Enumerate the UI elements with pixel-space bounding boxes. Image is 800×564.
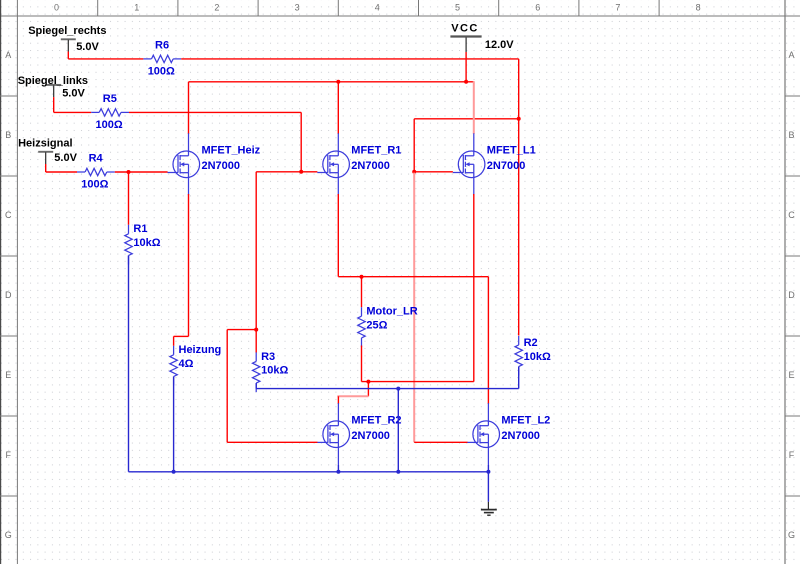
wire horizontal y=117.8 branch to MFET_L1 gate loop	[414, 118, 519, 120]
wire ground bus y=471.8	[129, 471, 489, 473]
junction VCC rail at VCC stem	[464, 80, 468, 84]
junction connector at ground bus	[396, 470, 400, 474]
junction VCC rail at MFET_R1 drain	[336, 80, 340, 84]
junction at (256.2,329.6)	[254, 328, 258, 332]
svg-text:6: 6	[535, 3, 540, 13]
wire MFET_L1 gate lead	[414, 171, 453, 173]
svg-text:3: 3	[295, 3, 300, 13]
svg-text:5.0V: 5.0V	[54, 152, 77, 164]
wire MFET_R2 drain drop	[337, 396, 339, 404]
junction Heizung at ground bus	[172, 470, 176, 474]
junction on x=518.7 at y=117.8	[517, 117, 521, 121]
wire Spiegel_links to R5 left pin	[54, 111, 91, 113]
wire MFET_R1 source down	[337, 194, 339, 277]
transistor MFET_L2 2N7000	[467, 403, 550, 465]
svg-text:4: 4	[375, 3, 380, 13]
svg-text:2N7000: 2N7000	[351, 160, 390, 172]
svg-text:1: 1	[134, 3, 139, 13]
wire vertical x=256.2 down to R3	[255, 172, 257, 353]
svg-text:8: 8	[696, 3, 701, 13]
svg-text:2N7000: 2N7000	[351, 430, 390, 442]
svg-text:MFET_L1: MFET_L1	[487, 145, 536, 157]
svg-text:R5: R5	[103, 93, 117, 105]
svg-text:4Ω: 4Ω	[179, 358, 194, 370]
wire blue connector x=398.3 down to ground bus	[397, 389, 399, 472]
svg-text:2N7000: 2N7000	[487, 160, 526, 172]
voltage source Spiegel_links 5.0V	[18, 75, 88, 112]
svg-text:Heizsignal: Heizsignal	[18, 137, 72, 149]
wire Motor_LR bottom down	[361, 346, 363, 382]
svg-text:R1: R1	[133, 223, 147, 235]
svg-text:100Ω: 100Ω	[96, 119, 123, 131]
resistor R6 100ohm	[143, 40, 181, 78]
wire MFET_L2 drain drop x=488.4	[487, 277, 489, 404]
svg-text:C: C	[788, 210, 795, 220]
resistor R1 10kohm	[125, 223, 161, 264]
svg-text:5: 5	[455, 3, 460, 13]
junction at (414.2,171.8)	[412, 170, 416, 174]
svg-text:MFET_R1: MFET_R1	[351, 145, 401, 157]
voltage source Spiegel_rechts 5.0V	[28, 25, 106, 59]
wire MFET_L2 gate lead	[414, 441, 467, 443]
transistor MFET_Heiz 2N7000	[168, 133, 261, 195]
svg-text:E: E	[5, 370, 11, 380]
junction MFET_L2 source / ground stem	[486, 470, 490, 474]
svg-text:R4: R4	[89, 153, 104, 165]
svg-text:R3: R3	[261, 351, 275, 363]
wire MFET_R2 source to ground bus	[337, 465, 339, 472]
wire Motor_LR top drop	[361, 277, 363, 308]
resistor Motor_LR 25ohm	[358, 306, 418, 347]
svg-text:B: B	[788, 130, 794, 140]
wire R1 bottom to ground bus	[128, 256, 130, 472]
svg-text:100Ω: 100Ω	[148, 65, 175, 77]
selected wire (pink) jog to MFET_R2 drain	[337, 395, 368, 397]
wire branch y=329.6 to x=227.2	[227, 329, 256, 331]
svg-text:2: 2	[214, 3, 219, 13]
svg-text:F: F	[5, 450, 11, 460]
wire horizontal y=276.7	[338, 276, 488, 278]
svg-text:MFET_L2: MFET_L2	[501, 415, 550, 427]
svg-text:7: 7	[615, 3, 620, 13]
transistor MFET_R1 2N7000	[317, 133, 401, 195]
wire R6 right pin to corner x=518.7	[181, 58, 519, 60]
svg-text:Spiegel_links: Spiegel_links	[18, 75, 88, 87]
wire vertical x=414.2 down to L1 gate node	[413, 119, 415, 172]
svg-text:5.0V: 5.0V	[76, 41, 99, 53]
svg-text:MFET_R2: MFET_R2	[351, 415, 401, 427]
resistor R4 100ohm	[77, 153, 115, 191]
svg-text:2N7000: 2N7000	[202, 160, 241, 172]
svg-text:Heizung: Heizung	[179, 344, 222, 356]
wire gate row y=171.8 from x=256.2 to MFET_R1 gate	[256, 171, 317, 173]
svg-text:E: E	[788, 370, 794, 380]
power symbol VCC 12.0V	[450, 23, 514, 52]
ground	[481, 502, 497, 515]
junction at (398.3,388.6)	[396, 387, 400, 391]
svg-text:C: C	[5, 210, 12, 220]
svg-text:2N7000: 2N7000	[501, 430, 540, 442]
transistor MFET_R2 2N7000	[317, 403, 401, 465]
svg-text:D: D	[5, 290, 12, 300]
wire vertical x=368.4 down	[367, 382, 369, 397]
svg-text:D: D	[788, 290, 795, 300]
resistor R3 10kohm	[253, 351, 289, 392]
wire vertical x=518.7 down to R2 top	[518, 59, 520, 336]
wire MFET_R2 gate lead row	[227, 441, 317, 443]
wire MFET_L2 source to ground stem	[487, 465, 489, 502]
wire horizontal y=381.6	[362, 381, 474, 383]
resistor R5 100ohm	[91, 93, 129, 131]
svg-text:0: 0	[54, 3, 59, 13]
svg-text:B: B	[5, 130, 11, 140]
svg-text:10kΩ: 10kΩ	[524, 351, 551, 363]
svg-text:MFET_Heiz: MFET_Heiz	[202, 145, 261, 157]
wire vertical x=227.2 down to MFET_R2 gate row	[226, 330, 228, 443]
wire R3 bottom corner to blue mid bus	[255, 383, 257, 389]
wire R4 right pin to MFET_Heiz gate	[115, 171, 168, 173]
wire MFET_Heiz drain drop	[188, 82, 190, 134]
svg-text:R6: R6	[155, 40, 169, 52]
wire jog left to Heizung	[174, 335, 189, 337]
selected wire (pink) MFET_L1 drain drop	[473, 81, 475, 134]
svg-text:VCC: VCC	[451, 23, 478, 35]
svg-text:10kΩ: 10kΩ	[133, 237, 160, 249]
wire blue mid bus y=388.6	[256, 388, 519, 390]
svg-text:G: G	[5, 530, 12, 540]
wire MFET_L1 source down	[473, 194, 475, 382]
selected wire (pink) x=414.2 down to MFET_L2 gate row	[413, 173, 415, 443]
svg-text:A: A	[5, 50, 11, 60]
svg-text:100Ω: 100Ω	[81, 178, 108, 190]
wire down to Heizung top	[173, 336, 175, 345]
svg-text:12.0V: 12.0V	[485, 39, 514, 51]
wire R5 right pin to corner x=301.2	[129, 111, 301, 113]
svg-text:Spiegel_rechts: Spiegel_rechts	[28, 25, 106, 37]
wire Spiegel_rechts to R6 left pin	[68, 58, 143, 60]
svg-text:5.0V: 5.0V	[62, 87, 85, 99]
junction MFET_R2 source at ground bus	[336, 470, 340, 474]
voltage source Heizsignal 5.0V	[18, 137, 77, 172]
wire R2 bottom down to blue mid bus corner	[518, 367, 520, 389]
resistor Heizung 4ohm	[170, 344, 221, 385]
svg-text:R2: R2	[524, 337, 538, 349]
svg-text:10kΩ: 10kΩ	[261, 365, 288, 377]
svg-text:A: A	[788, 50, 794, 60]
junction at Motor_LR top	[360, 275, 364, 279]
wire vertical x=128.5 down to R1 top	[128, 172, 130, 225]
svg-text:G: G	[788, 530, 795, 540]
junction at (301.2,171.8)	[299, 170, 303, 174]
wire MFET_R1 drain drop	[337, 82, 339, 134]
svg-text:Motor_LR: Motor_LR	[366, 306, 417, 318]
junction at (128.5,172.0)	[127, 170, 131, 174]
junction at (368.4,381.6)	[366, 380, 370, 384]
wire VCC stem down to rail	[465, 52, 467, 82]
wire Heizsignal to R4 left pin	[46, 171, 77, 173]
svg-text:25Ω: 25Ω	[366, 319, 387, 331]
wire Heizung bottom to ground bus	[173, 377, 175, 472]
transistor MFET_L1 2N7000	[453, 133, 536, 195]
wire vertical x=301.2 down to gate row	[300, 112, 302, 171]
wire x=518.7 R2 handled above; resistor R2 10kohm	[515, 336, 551, 376]
wire MFET_Heiz source down	[188, 194, 190, 336]
wire VCC rail y=81.4	[189, 81, 474, 83]
svg-text:F: F	[789, 450, 795, 460]
